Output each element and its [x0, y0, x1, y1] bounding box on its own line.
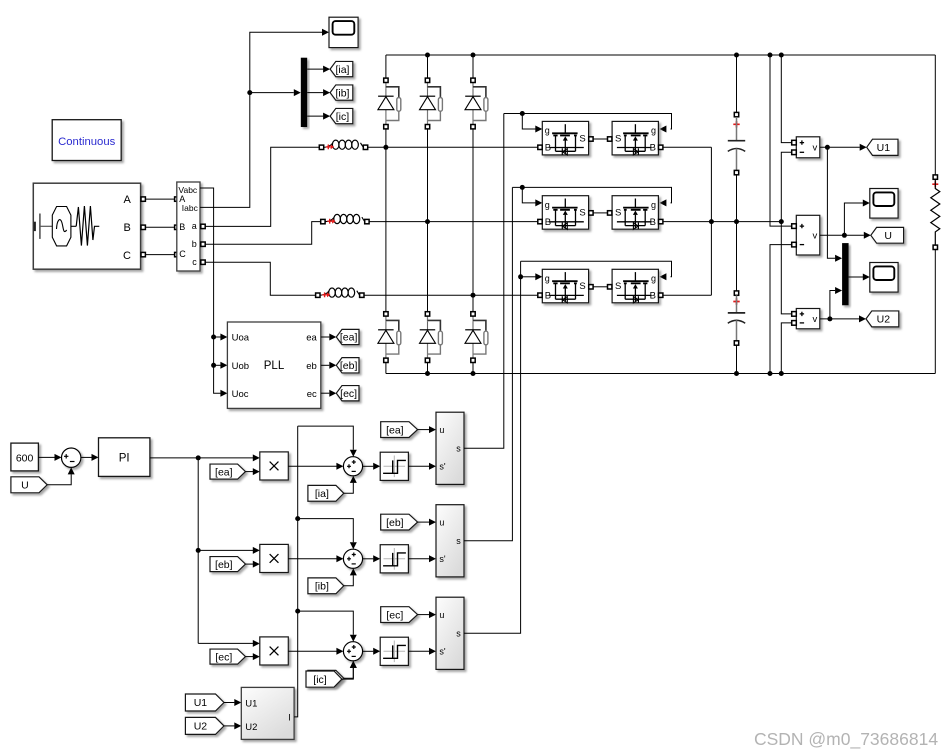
wire relay to comparator row 1 [408, 463, 436, 470]
goto tag U2 [866, 311, 899, 327]
svg-text:[ic]: [ic] [313, 674, 327, 686]
svg-text:B: B [545, 217, 551, 228]
svg-text:B: B [124, 222, 131, 234]
wire top bus to load resistor [934, 55, 936, 175]
wire diode column 3 lower [472, 295, 474, 373]
wire [ec] to product [246, 653, 260, 660]
svg-text:U1: U1 [245, 698, 257, 709]
wire U to sum [47, 467, 74, 484]
from tag U1 balance [185, 694, 224, 711]
wire diode column 3 upper [472, 55, 474, 295]
sum hysteresis row 3 [343, 642, 362, 661]
series RL branch Lb [321, 214, 369, 223]
wire gate distribution row 3 [518, 261, 671, 280]
from tag U2 balance [185, 717, 224, 734]
svg-text:B: B [179, 222, 185, 232]
svg-text:g: g [651, 200, 656, 210]
from tag [ea] comparator feed [381, 422, 418, 438]
goto tag [ia] [330, 61, 353, 76]
wire top bus to voltmeter U1 feed [781, 55, 791, 143]
wire [eb] to comparator u row 2 [418, 519, 436, 526]
capacitor C2 [728, 291, 745, 345]
wire sum to relay row 3 [363, 648, 381, 655]
svg-text:[ec]: [ec] [386, 609, 403, 621]
svg-text:b: b [192, 239, 197, 249]
mosfet Q4 [608, 196, 663, 230]
wire sum to relay row 2 [363, 555, 381, 562]
wire load resistor to bottom bus [934, 250, 936, 374]
from tag [eb] comparator feed [381, 514, 418, 530]
wire capacitor column bottom [736, 345, 738, 373]
wire relay to comparator row 2 [408, 555, 436, 562]
svg-text:[ic]: [ic] [336, 111, 350, 123]
svg-text:B: B [650, 217, 656, 228]
wire U2 to subsystem [224, 722, 241, 729]
wire product to sum row 2 [288, 555, 343, 562]
wire U1 output [820, 144, 867, 262]
relay row 1 [380, 452, 408, 480]
product block row 3 [260, 637, 289, 665]
mux capacitor voltages [842, 243, 849, 305]
svg-text:s': s' [439, 554, 446, 564]
wire phase c to bridge [364, 294, 537, 296]
svg-text:u: u [439, 517, 444, 527]
wire diode column 2 lower [427, 222, 429, 374]
svg-text:U1: U1 [877, 142, 891, 154]
svg-text:S: S [615, 281, 621, 292]
wire gate distribution row 1 [504, 111, 672, 133]
mosfet Q2 [608, 121, 663, 155]
wire mux to scope [849, 274, 870, 281]
diode D6 lower [465, 312, 488, 363]
wire phase a from measurement [205, 147, 319, 226]
wire [ia] to sum bottom row 1 [344, 476, 357, 493]
wire top dc bus [386, 53, 935, 58]
wire right D to midpoint row 3 [663, 294, 711, 296]
sum hysteresis row 1 [343, 457, 362, 476]
svg-text:Iabc: Iabc [182, 203, 199, 213]
wire product to sum row 3 [288, 648, 343, 655]
diode D4 lower [378, 312, 401, 363]
svg-text:s: s [456, 629, 461, 639]
svg-text:CSDN @m0_73686814: CSDN @m0_73686814 [754, 729, 938, 750]
svg-text:U2: U2 [877, 314, 891, 326]
wire product to sum row 1 [288, 463, 343, 470]
svg-text:c: c [192, 257, 197, 267]
voltage measurement U1 [792, 137, 820, 158]
wire PLL output [ec] [321, 390, 337, 397]
svg-text:[ec]: [ec] [215, 651, 232, 663]
svg-text:U: U [884, 230, 892, 242]
svg-text:A: A [124, 194, 132, 206]
svg-text:a: a [192, 221, 197, 231]
product block row 2 [260, 544, 289, 572]
wire neutral feed to sum top row 1 [298, 426, 357, 457]
scope U [870, 189, 898, 219]
demux currents [301, 58, 307, 127]
voltage measurement U2 [792, 309, 820, 329]
comparator subsystem row 3 [436, 597, 464, 669]
svg-text:u: u [439, 425, 444, 435]
svg-text:s': s' [439, 647, 446, 657]
svg-text:g: g [545, 126, 550, 136]
svg-text:eb: eb [306, 361, 317, 372]
goto tag [ea] [336, 329, 359, 344]
mosfet Q6 [608, 269, 663, 303]
svg-text:C: C [179, 249, 186, 259]
wire subsystem I to sums [294, 426, 300, 717]
wire comparator s to gate row 3 [464, 261, 521, 633]
svg-text:Uob: Uob [232, 361, 249, 372]
svg-text:v: v [813, 231, 818, 242]
capacitor C1 [728, 112, 745, 174]
svg-text:Uoc: Uoc [232, 389, 249, 400]
svg-text:s: s [456, 444, 461, 454]
svg-text:[ea]: [ea] [215, 466, 233, 478]
mosfet Q5 [538, 269, 593, 303]
wire sum to PI [81, 454, 99, 461]
wire U output [820, 200, 871, 239]
svg-text:U2: U2 [245, 722, 257, 733]
wire S-S row 3 [593, 286, 607, 288]
svg-text:PLL: PLL [264, 360, 285, 372]
svg-text:ea: ea [306, 333, 317, 344]
svg-text:v: v [813, 143, 818, 154]
relay row 3 [380, 637, 408, 665]
svg-text:ec: ec [307, 389, 317, 400]
wire diode column 1 lower [385, 147, 387, 373]
from tag [ic] row 3 [306, 671, 342, 687]
svg-text:[ib]: [ib] [315, 581, 329, 593]
svg-text:Uoa: Uoa [232, 333, 250, 344]
wire right D to midpoint row 1 [663, 146, 711, 148]
wire source B to measurement B [141, 225, 179, 229]
svg-text:[ib]: [ib] [335, 87, 349, 99]
svg-text:[eb]: [eb] [340, 360, 358, 372]
svg-text:g: g [545, 200, 550, 210]
from tag [eb] product feed [210, 557, 246, 572]
svg-text:S: S [579, 281, 585, 292]
diode D5 lower [420, 312, 443, 363]
svg-text:B: B [545, 291, 551, 302]
diode D3 upper [465, 78, 488, 129]
wire source A to measurement A [141, 197, 179, 201]
wire PI output distribution [150, 454, 260, 647]
wire [ic] to sum 3 [342, 661, 357, 679]
svg-text:l: l [288, 712, 290, 723]
scope Iabc [329, 17, 358, 47]
wire source C to measurement C [141, 252, 179, 256]
wire Iabc to scope and demux [200, 29, 329, 208]
wire capacitor column top [736, 55, 738, 112]
three-phase V-I measurement block [177, 182, 205, 271]
wire phase b to bridge [369, 221, 537, 223]
wire 600 to sum [38, 454, 61, 461]
wire [ic] to sum bottom row 3 [344, 661, 357, 678]
goto tag U [871, 227, 904, 243]
svg-text:g: g [651, 126, 656, 136]
wire comparator s to gate row 1 [464, 114, 504, 449]
svg-text:C: C [123, 250, 131, 262]
svg-text:Continuous: Continuous [58, 136, 116, 148]
wire diode column 2 upper [427, 55, 429, 222]
wire sum to relay row 1 [363, 463, 381, 470]
product block row 1 [260, 452, 289, 480]
wire neutral feed to sum top row 3 [298, 611, 357, 642]
comparator subsystem row 1 [436, 412, 464, 484]
wire S-S row 2 [593, 212, 607, 214]
wire [eb] to product [246, 561, 260, 568]
from tag [ec] comparator feed [381, 607, 418, 623]
svg-text:v: v [813, 314, 818, 325]
wire demux out 3 [307, 113, 330, 120]
subsystem neutral balance [241, 687, 294, 739]
wire [ec] to comparator u row 3 [418, 611, 436, 618]
svg-text:s': s' [439, 462, 446, 472]
watermark [754, 729, 938, 750]
wire PLL output [eb] [321, 362, 337, 369]
svg-text:s: s [456, 536, 461, 546]
svg-text:PI: PI [119, 453, 130, 465]
wire diode column 1 upper [385, 55, 387, 147]
from tag [ic] [308, 670, 344, 686]
mosfet Q1 [538, 121, 593, 155]
wire U2 output [820, 287, 866, 322]
wire relay to comparator row 3 [408, 648, 436, 655]
wire bottom dc bus [386, 371, 935, 376]
svg-text:B: B [650, 291, 656, 302]
wire demux out 1 [307, 66, 330, 73]
wire S-S row 1 [593, 138, 607, 140]
wire demux out 2 [307, 89, 330, 96]
svg-text:U1: U1 [194, 697, 208, 709]
wire [ib] to sum bottom row 2 [344, 568, 357, 585]
node phase b diode junction [425, 219, 430, 224]
goto tag U1 [867, 139, 898, 155]
wire [ea] to product [246, 468, 260, 475]
wire voltmeter U1 minus to midpoint [781, 152, 791, 314]
wire voltmeter U2 minus to bottom bus [781, 323, 791, 374]
wire phase a to bridge [368, 146, 538, 148]
load resistor R [931, 175, 940, 250]
svg-text:S: S [579, 208, 585, 219]
from tag [ea] product feed [210, 464, 246, 479]
goto tag [ic] [330, 108, 353, 123]
series RL branch La [319, 140, 367, 149]
svg-text:U: U [21, 480, 29, 492]
from tag [ia] [308, 485, 344, 501]
sum hysteresis row 2 [343, 549, 362, 568]
wire PLL output [ea] [321, 334, 337, 341]
scope capacitor voltages [870, 263, 898, 293]
series RL branch Lc [316, 288, 364, 297]
diode D1 upper [378, 78, 401, 129]
svg-text:[eb]: [eb] [215, 559, 233, 571]
wire right D to midpoint row 2 [663, 219, 784, 224]
svg-text:u: u [439, 610, 444, 620]
from tag U [11, 477, 47, 493]
svg-text:S: S [579, 133, 585, 144]
diode D2 upper [420, 78, 443, 129]
svg-text:g: g [651, 273, 656, 283]
goto tag [eb] [336, 358, 359, 373]
from tag [ec] product feed [210, 649, 246, 664]
three-phase source block [33, 183, 140, 269]
svg-text:g: g [545, 273, 550, 283]
svg-text:S: S [615, 133, 621, 144]
wire phase c from measurement [205, 262, 315, 295]
wire midpoint vertical [710, 147, 712, 295]
wire phase b from measurement [205, 222, 320, 245]
wire neutral feed to sum top row 2 [298, 519, 357, 550]
svg-text:[ia]: [ia] [335, 64, 349, 76]
node phase a diode junction [383, 145, 388, 150]
constant 600 [11, 443, 39, 471]
mosfet Q3 [538, 196, 593, 230]
svg-text:[eb]: [eb] [386, 517, 404, 529]
goto tag [ib] [330, 85, 353, 100]
wire gate distribution row 2 [512, 185, 671, 207]
svg-text:U2: U2 [194, 721, 208, 733]
svg-text:[ec]: [ec] [340, 388, 357, 400]
svg-text:B: B [545, 143, 551, 154]
relay row 2 [380, 545, 408, 573]
voltage measurement U [792, 215, 820, 255]
comparator subsystem row 2 [436, 505, 464, 577]
wire capacitor midpoint [736, 175, 738, 291]
svg-text:[ia]: [ia] [315, 488, 329, 500]
from tag [ib] [308, 578, 344, 594]
wire comparator s to gate row 2 [464, 187, 512, 540]
powergui Continuous block [52, 120, 121, 161]
sum voltage error [61, 448, 80, 467]
wire voltmeter U minus to bottom bus [770, 245, 792, 374]
subsystem PLL [227, 322, 320, 408]
svg-text:[ea]: [ea] [386, 424, 404, 436]
svg-text:[ea]: [ea] [340, 332, 358, 344]
svg-text:600: 600 [16, 452, 34, 464]
PI controller [99, 438, 150, 477]
svg-text:B: B [650, 143, 656, 154]
wire U1 to subsystem [224, 699, 241, 706]
goto tag [ec] [336, 386, 359, 401]
node phase c diode junction [471, 293, 476, 298]
wire Vabc to PLL inputs [200, 188, 227, 397]
wire [ea] to comparator u row 1 [418, 426, 436, 433]
svg-text:S: S [615, 208, 621, 219]
wire top bus to voltmeter U feed [770, 55, 792, 226]
